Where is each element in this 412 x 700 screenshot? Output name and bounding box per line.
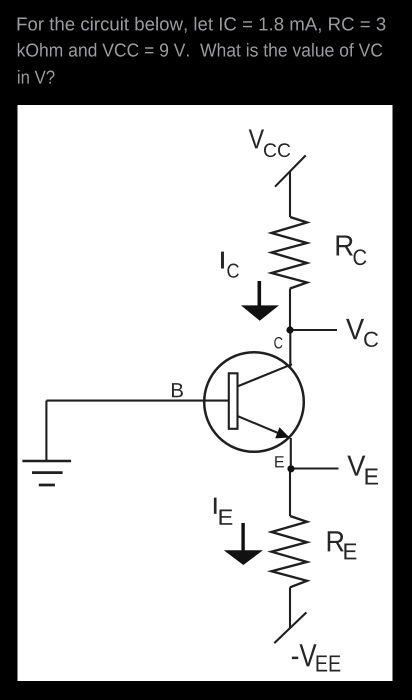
power slash VCC <box>275 155 306 186</box>
current arrow I_E head <box>224 550 263 565</box>
label VE <box>347 456 365 476</box>
label B at base <box>172 383 183 397</box>
base wire <box>46 400 228 402</box>
wire node E to RE <box>289 469 291 516</box>
wire node C down to collector <box>289 330 291 367</box>
transistor base bar <box>229 373 238 429</box>
label E at emitter node <box>275 456 284 467</box>
question text line 3 <box>18 70 54 84</box>
emitter arrowhead <box>275 427 289 438</box>
current arrow I_C shaft <box>258 281 262 306</box>
resistor R_E <box>272 516 308 587</box>
wire RC to node C <box>289 289 291 331</box>
question text line 1 <box>18 17 386 33</box>
wire VCC to RC <box>289 171 291 217</box>
ground lead wire <box>45 401 47 461</box>
label VC <box>346 319 364 339</box>
power slash -VEE <box>274 612 306 643</box>
label IC <box>221 252 224 269</box>
collector lead <box>238 364 293 386</box>
resistor R_C <box>272 217 308 289</box>
label IE <box>214 498 217 514</box>
label RC <box>336 235 352 255</box>
current arrow I_C head <box>241 305 279 320</box>
schematic panel <box>18 105 393 681</box>
ground bar 2 <box>32 471 63 474</box>
wire RE to VEE slash <box>289 587 291 628</box>
ground bar 3 <box>39 484 55 487</box>
wire node E to VE label <box>293 467 339 469</box>
emitter wire to node E <box>290 438 292 469</box>
node C junction dot <box>286 326 293 333</box>
label C at collector node <box>274 337 282 349</box>
question text line 2 <box>18 43 382 57</box>
node E junction dot <box>287 465 294 472</box>
label -VEE <box>292 644 317 666</box>
label VCC <box>249 129 264 148</box>
emitter lead <box>237 416 290 438</box>
label RE <box>328 531 344 551</box>
ground bar 1 <box>22 460 71 463</box>
transistor Q1 body circle <box>204 352 304 452</box>
wire node C to VC label <box>293 329 338 331</box>
current arrow I_E shaft <box>241 523 244 551</box>
